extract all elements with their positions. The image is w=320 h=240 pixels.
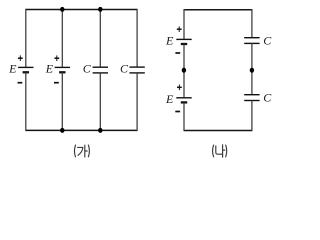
junction node mid-right: [250, 68, 254, 73]
capacitor C2 top plate: [129, 66, 144, 68]
battery E4 short plate (-): [181, 101, 187, 103]
capacitor C4 bottom plate: [244, 100, 259, 102]
battery E2 short plate (-): [59, 71, 65, 73]
caption (나): [213, 145, 227, 157]
capacitor C1 bottom plate: [93, 72, 108, 74]
svg-text:C: C: [120, 61, 129, 75]
wire: branch 2 upper segment (to battery E2): [61, 10, 63, 68]
battery E1 short plate (-): [23, 71, 29, 73]
battery E4 long plate (+): [176, 97, 191, 99]
wire: left edge segment between batteries: [183, 44, 185, 98]
wire: left edge segment below battery E4: [183, 102, 185, 131]
battery E3 short plate (-): [181, 43, 187, 45]
wire: left edge segment to battery E3: [183, 9, 185, 39]
capacitor C4 top plate: [244, 94, 259, 96]
junction node top branch3: [98, 7, 102, 12]
svg-text:E: E: [8, 62, 17, 76]
capacitor C3 top plate: [244, 37, 259, 39]
wire: top edge of left circuit: [26, 9, 137, 11]
minus sign of E4: [175, 111, 180, 113]
battery E3 long plate (+): [176, 38, 191, 40]
wire: top edge of right circuit: [184, 9, 252, 11]
battery E2 long plate (+): [55, 66, 70, 68]
svg-text:E: E: [165, 33, 174, 47]
plus sign of E1: [18, 55, 23, 61]
wire: bottom edge of right circuit: [184, 130, 252, 132]
battery E1 long plate (+): [18, 66, 33, 68]
minus sign of E3: [175, 52, 180, 54]
junction node mid-left: [182, 68, 186, 73]
wire: right edge segment below capacitor C4: [251, 101, 253, 132]
minus sign of E2: [54, 82, 59, 84]
capacitor C1 top plate: [93, 66, 108, 68]
wire: left edge upper segment (to battery E1): [25, 9, 27, 68]
wire: right edge lower segment (from capacitor C2): [136, 73, 138, 131]
plus sign of E3: [177, 26, 182, 32]
capacitor C2 bottom plate: [129, 72, 144, 74]
svg-text:C: C: [263, 34, 272, 48]
wire: right edge segment between capacitors: [251, 43, 253, 94]
junction node top branch2: [60, 7, 64, 12]
wire: left edge lower segment (from battery E1): [25, 72, 27, 131]
svg-text:E: E: [165, 92, 174, 106]
wire: branch 3 upper segment (to capacitor C1): [99, 10, 101, 68]
wire: right edge segment to capacitor C3: [251, 9, 253, 38]
svg-text:E: E: [45, 62, 54, 76]
caption (가): [74, 145, 89, 157]
plus sign of E4: [177, 85, 182, 91]
svg-text:C: C: [83, 62, 92, 76]
wire: branch 3 lower segment (from capacitor C1): [99, 73, 101, 130]
wire: bottom edge of left circuit: [26, 129, 137, 131]
capacitor C3 bottom plate: [244, 42, 259, 44]
wire: branch 2 lower segment (from battery E2): [61, 72, 63, 130]
minus sign of E1: [18, 82, 23, 84]
wire: right edge upper segment (to capacitor C2): [136, 9, 138, 67]
junction node bottom branch3: [98, 128, 102, 133]
svg-text:C: C: [263, 90, 272, 104]
junction node bottom branch2: [60, 128, 64, 133]
plus sign of E2: [54, 55, 59, 61]
